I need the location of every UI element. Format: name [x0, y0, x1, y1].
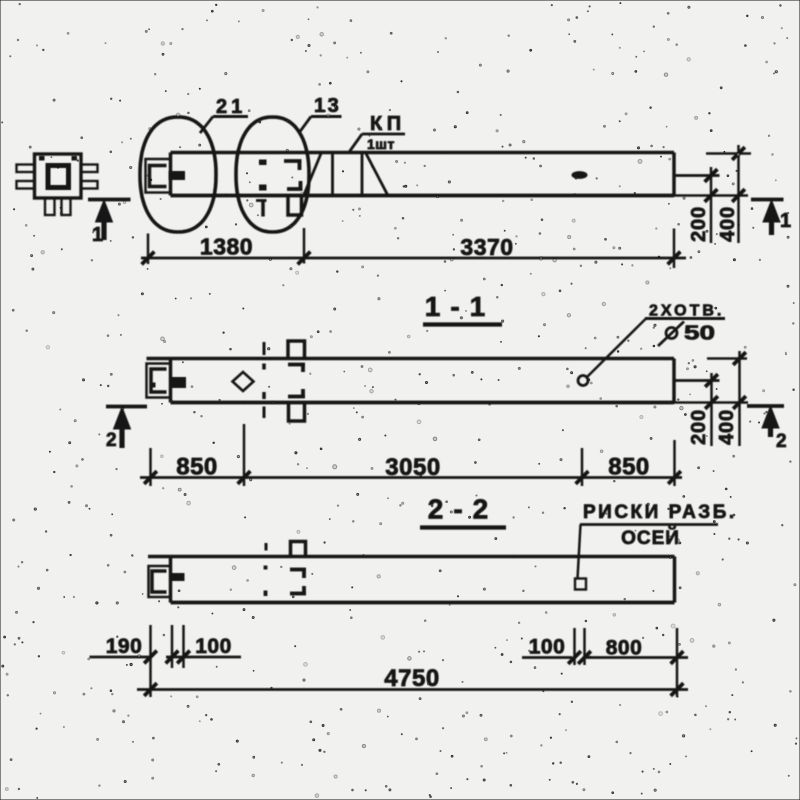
svg-text:2-2: 2-2: [428, 494, 498, 525]
svg-text:1: 1: [92, 224, 103, 246]
svg-text:400: 400: [716, 409, 738, 445]
svg-text:800: 800: [606, 637, 643, 660]
svg-text:100: 100: [195, 635, 232, 658]
svg-text:400: 400: [717, 206, 739, 242]
svg-text:50: 50: [684, 323, 715, 345]
svg-text:2ХОТВ.: 2ХОТВ.: [649, 303, 724, 320]
svg-text:3050: 3050: [385, 454, 440, 481]
svg-text:190: 190: [106, 635, 143, 658]
svg-text:4750: 4750: [384, 665, 439, 692]
svg-text:2: 2: [106, 430, 117, 451]
svg-text:21: 21: [216, 96, 246, 118]
svg-text:РИСКИ РАЗБ.: РИСКИ РАЗБ.: [583, 502, 737, 523]
svg-text:100: 100: [529, 636, 566, 659]
svg-text:1шт: 1шт: [367, 136, 395, 152]
svg-text:2: 2: [776, 431, 787, 452]
svg-text:200: 200: [688, 206, 710, 242]
svg-text:850: 850: [608, 454, 650, 481]
svg-text:1380: 1380: [200, 234, 253, 260]
svg-text:3370: 3370: [460, 234, 513, 260]
svg-text:850: 850: [176, 454, 218, 481]
svg-text:200: 200: [688, 409, 710, 445]
svg-text:1: 1: [780, 210, 791, 232]
svg-text:ОСЕЙ: ОСЕЙ: [621, 527, 680, 549]
svg-text:КП: КП: [370, 113, 406, 135]
